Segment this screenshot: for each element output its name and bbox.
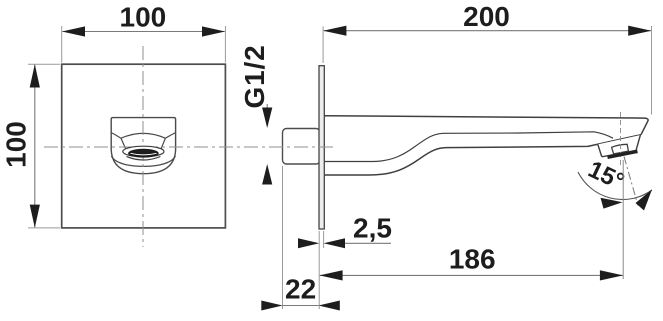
- centerline horizontal shared: [44, 146, 336, 148]
- extension 200 right: [651, 26, 653, 115]
- extension line top-100 left: [61, 26, 63, 63]
- arrow 22 left: [261, 301, 282, 311]
- extension 186 right: [622, 160, 624, 279]
- extension plate left face down: [318, 231, 320, 309]
- extension 200 left: [322, 26, 324, 63]
- spout body side: [325, 116, 649, 175]
- svg-text:186: 186: [449, 244, 496, 275]
- aerator dark front: [128, 149, 159, 158]
- dimension 200 line: [324, 30, 651, 32]
- pipe nipple: [283, 129, 321, 165]
- arrow 100 left bottom: [30, 205, 40, 228]
- angle arc 15: [578, 172, 652, 200]
- dimension 100 left line: [34, 65, 36, 228]
- dimension 2,5 leader: [345, 242, 391, 244]
- arrow 100 left top: [30, 64, 40, 87]
- svg-text:22: 22: [285, 274, 316, 305]
- extension line left-100 top: [28, 63, 60, 65]
- svg-text:200: 200: [463, 1, 510, 32]
- aerator axis dashed vertical: [620, 112, 622, 166]
- aerator ring dark band: [608, 151, 638, 157]
- spout front inner arc: [111, 156, 175, 166]
- arrow 200 right: [628, 26, 651, 36]
- spout inner underside line: [325, 132, 614, 162]
- dimension 100 top line: [63, 31, 225, 33]
- svg-text:G1/2: G1/2: [239, 45, 270, 109]
- arrow arc right: [636, 190, 653, 211]
- svg-text:100: 100: [120, 2, 167, 33]
- arrow 22 right: [319, 301, 340, 311]
- extension line left-100 bottom: [28, 227, 60, 229]
- arrow G12 down: [262, 108, 272, 129]
- aerator insert tip: [612, 144, 629, 154]
- arrow 200 left: [323, 26, 346, 36]
- extension 22 left: [282, 166, 284, 309]
- arrow 100 top left: [62, 26, 85, 36]
- aerator axis tilted 15 deg: [624, 157, 638, 206]
- arrow arc left: [601, 198, 623, 209]
- arrow 2,5 right: [324, 238, 345, 248]
- arrow 186 left: [319, 270, 342, 280]
- svg-text:2,5: 2,5: [353, 213, 392, 244]
- dimension 186 line: [320, 274, 623, 276]
- extension line top-100 right: [224, 26, 226, 63]
- arrow 186 right: [600, 270, 623, 280]
- aerator highlight: [131, 153, 157, 155]
- arrow 100 top right: [202, 26, 225, 36]
- spout front top rim ellipse: [121, 133, 165, 138]
- aerator housing tip: [598, 135, 641, 157]
- spout front view body: [111, 118, 175, 174]
- aerator bottom arc: [127, 157, 161, 161]
- dimension G1/2 upper: [266, 104, 268, 126]
- centerline vertical front view: [142, 46, 144, 247]
- svg-text:100: 100: [1, 121, 32, 168]
- wall plate side: [319, 66, 324, 229]
- front wall plate square: [62, 64, 226, 228]
- arrow 2,5 left: [298, 238, 319, 248]
- arrow G12 up: [262, 164, 272, 185]
- spout front funnel: [111, 133, 175, 151]
- dimension 22 line: [283, 305, 319, 307]
- aerator ring front: [123, 146, 164, 157]
- extension plate right face down: [323, 231, 325, 248]
